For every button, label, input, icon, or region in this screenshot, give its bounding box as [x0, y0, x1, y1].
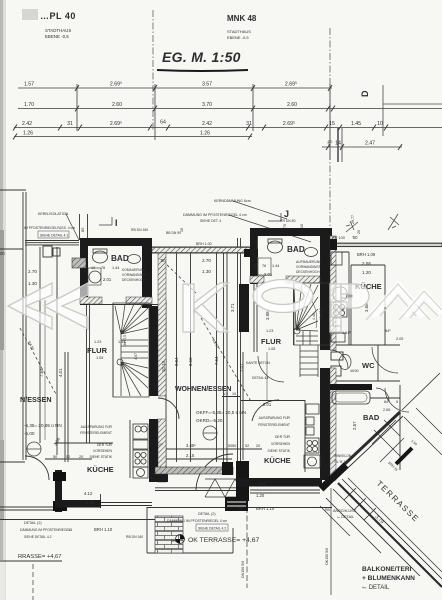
right kitchen stove — [305, 438, 319, 453]
left spiral stair boundary — [113, 303, 149, 397]
svg-text:IM PFOSTENRIEGELFASS. 4 cm: IM PFOSTENRIEGELFASS. 4 cm — [24, 226, 75, 230]
far right sink oval — [333, 287, 347, 301]
svg-text:20: 20 — [357, 230, 361, 234]
row4 labels — [23, 131, 375, 147]
svg-text:7.64: 7.64 — [214, 356, 219, 365]
svg-text:DÄMMUNG IM PFOSTENRIEGEL: DÄMMUNG IM PFOSTENRIEGEL — [20, 528, 71, 532]
svg-text:50: 50 — [232, 444, 236, 448]
left kitchen sink unit — [133, 424, 148, 439]
left unit living left line x166 — [165, 300, 167, 467]
svg-text:RB DN 160: RB DN 160 — [126, 535, 143, 539]
center insulation band — [155, 467, 233, 474]
svg-text:1.05: 1.05 — [96, 356, 103, 360]
axis marker D bracket — [382, 85, 384, 136]
far right band top lines — [332, 243, 442, 246]
far right wc divider — [377, 345, 379, 381]
property dashed vertical bottom left — [32, 564, 34, 600]
svg-text:12⁵: 12⁵ — [157, 443, 163, 447]
svg-text:1.30: 1.30 — [202, 269, 211, 274]
svg-text:BRH 1.09: BRH 1.09 — [357, 252, 376, 257]
survey arrow mark 2 — [388, 214, 399, 230]
svg-text:1.23: 1.23 — [94, 340, 101, 344]
center bottom dim line — [155, 448, 240, 450]
far-left window triple lines — [25, 240, 79, 242]
svg-text:40/30: 40/30 — [350, 369, 359, 373]
center truss zigzag — [205, 479, 248, 497]
svg-text:2.69⁵: 2.69⁵ — [283, 121, 295, 127]
right stair treads fan — [294, 284, 318, 331]
far right fridge — [331, 252, 342, 265]
svg-text:1.44: 1.44 — [272, 264, 279, 268]
svg-text:DER TÜR: DER TÜR — [275, 435, 291, 439]
svg-text:DECKENHOCH: DECKENHOCH — [122, 278, 146, 282]
svg-text:31: 31 — [246, 121, 252, 127]
svg-text:KANTE BETON: KANTE BETON — [246, 361, 270, 365]
left scan edge strip — [0, 0, 3, 600]
far right kitchen room lines — [350, 265, 352, 345]
ok terrasse box left line — [146, 507, 148, 553]
svg-text:52: 52 — [66, 455, 70, 459]
svg-text:4.46: 4.46 — [312, 313, 316, 320]
svg-text:10: 10 — [232, 392, 236, 396]
svg-text:+ BLUMENKANN: + BLUMENKANN — [362, 575, 415, 582]
right BAD left wall — [250, 228, 257, 284]
right kitchen header line — [241, 400, 305, 402]
svg-text:VORSEHEN: VORSEHEN — [271, 442, 291, 446]
left stair middle treads — [121, 340, 148, 358]
survey point symbol — [176, 535, 185, 544]
svg-text:ANSCHLUSS: ANSCHLUSS — [333, 509, 357, 513]
svg-text:FLUR: FLUR — [261, 337, 282, 346]
tick marks row3 — [13, 125, 388, 131]
far right door arc 1 — [372, 347, 398, 373]
diagonal wall A extension thin — [402, 373, 440, 410]
axis marker I elbow — [99, 224, 112, 226]
center black block a — [222, 462, 233, 475]
right flur dim row — [222, 396, 240, 398]
tick marks row2 — [75, 106, 335, 112]
svg-text:7.64: 7.64 — [39, 368, 44, 377]
svg-text:5: 5 — [396, 400, 398, 404]
svg-text:00: 00 — [0, 251, 5, 256]
svg-text:10: 10 — [180, 228, 184, 232]
far right band border lines — [332, 242, 442, 244]
right unit kitchen door arc — [252, 400, 279, 421]
left BAD right wall upper — [142, 246, 152, 308]
svg-text:1.70: 1.70 — [24, 102, 34, 108]
watermark letter P — [330, 284, 369, 332]
center black block b — [236, 461, 249, 501]
right stair winder arc — [298, 287, 317, 328]
svg-text:1.30: 1.30 — [28, 281, 37, 286]
svg-text:STADTHAUS: STADTHAUS — [227, 29, 251, 34]
svg-text:2.42: 2.42 — [22, 121, 32, 127]
right unit window lines bottom — [250, 489, 320, 491]
left stair top fan — [115, 304, 148, 334]
left BAD left wall — [80, 238, 88, 305]
far right boundary vertical — [399, 385, 401, 470]
svg-text:RB: RB — [325, 508, 330, 512]
svg-text:KÜCHE: KÜCHE — [87, 465, 114, 474]
far-left window head line — [0, 248, 23, 250]
tick marks row1 — [75, 85, 332, 91]
right BAD shower — [258, 258, 271, 275]
watermark logo chevrons — [8, 283, 88, 329]
svg-text:2.65: 2.65 — [383, 408, 390, 412]
right stair lower flight — [300, 345, 318, 377]
svg-text:DÄMMUNG IM PFOSTENRIEGEL 4 cm: DÄMMUNG IM PFOSTENRIEGEL 4 cm — [183, 213, 247, 217]
center black block c — [225, 497, 248, 511]
left kitchen bottom wall — [55, 500, 101, 508]
svg-text:2.69⁵: 2.69⁵ — [285, 82, 297, 88]
svg-text:50: 50 — [228, 444, 232, 448]
left stair center line — [120, 330, 122, 366]
svg-text:BRH 1.00: BRH 1.00 — [196, 242, 212, 246]
pipe line vertical bottom right — [330, 488, 332, 595]
svg-text:BAD: BAD — [287, 245, 305, 254]
svg-text:D: D — [360, 90, 370, 97]
svg-text:2.47: 2.47 — [365, 141, 375, 147]
svg-text:14: 14 — [335, 141, 341, 147]
terrace step rungs — [344, 488, 376, 520]
left BAD top wall — [80, 238, 152, 246]
far-left kitchen door arc — [25, 456, 49, 480]
svg-text:BRH 1.10: BRH 1.10 — [94, 527, 113, 532]
svg-text:16x17,5: 16x17,5 — [319, 308, 323, 320]
watermark letter A peaks — [366, 284, 442, 320]
svg-text:DETAIL 44: DETAIL 44 — [252, 376, 268, 380]
left unit kitchen divider line — [55, 442, 113, 444]
svg-text:2.01: 2.01 — [239, 363, 244, 372]
svg-text:DETAIL (2): DETAIL (2) — [24, 521, 42, 525]
left kitchen oven — [133, 467, 148, 478]
svg-text:8.16: 8.16 — [188, 357, 193, 366]
station connector x=77 — [76, 84, 78, 131]
far right appliance column border — [348, 252, 350, 345]
right kitchen small boxes — [306, 417, 314, 425]
left unit FLUR right line — [112, 303, 114, 397]
underline of title — [157, 70, 248, 71]
svg-text:RR DN 80: RR DN 80 — [280, 219, 296, 223]
svg-text:RR 100: RR 100 — [332, 236, 345, 240]
svg-text:OKRD=-5,20: OKRD=-5,20 — [196, 418, 223, 423]
left kitchen corner blocks — [53, 472, 66, 481]
svg-text:VORWANDINST.: VORWANDINST. — [296, 265, 321, 269]
far-left bottom double line — [0, 506, 65, 508]
svg-text:OK150 5/6: OK150 5/6 — [325, 548, 329, 565]
row2 labels — [24, 102, 297, 108]
far right bad line — [370, 397, 400, 399]
terrace step line 4 — [320, 506, 350, 536]
far-left bottom line y560 — [0, 560, 62, 562]
far-left outer wall double — [22, 192, 24, 460]
pipe line vertical bottom center — [246, 490, 248, 588]
left kitchen door dim line — [45, 458, 92, 460]
far-left wall jamb lines — [79, 214, 81, 240]
double line below row3 right — [337, 128, 339, 162]
dimension row 2 line — [18, 108, 442, 110]
terrace edge B thick — [338, 483, 442, 587]
center bottom long line — [147, 507, 247, 509]
svg-text:BAD: BAD — [363, 413, 380, 422]
aussparung text right kitchen — [258, 416, 291, 453]
living room vertical dim lines left unit — [176, 253, 178, 462]
watermark letter K — [183, 283, 228, 332]
drain dashed diagonal left unit — [163, 261, 196, 293]
diagonal house wall A double — [331, 412, 400, 477]
brick terrace strip — [155, 516, 183, 553]
svg-text:1.26: 1.26 — [200, 131, 210, 137]
svg-text:MNK 48: MNK 48 — [227, 14, 257, 23]
far right vanity block — [330, 384, 372, 390]
left unit inner wall lines x88 — [86, 305, 88, 443]
svg-text:20: 20 — [79, 455, 83, 459]
svg-text:WC: WC — [362, 361, 375, 370]
right top window black block — [330, 239, 337, 250]
far right door arc 2 — [385, 388, 409, 412]
svg-text:76: 76 — [101, 266, 105, 270]
ok terrasse box right line — [232, 528, 234, 553]
svg-text:1.61⁵: 1.61⁵ — [342, 331, 351, 335]
far-left furniture rect 2 — [53, 248, 60, 256]
dimension row 3 line — [14, 127, 442, 129]
right unit kitchen counter line — [304, 400, 306, 472]
smudge top-left — [22, 9, 38, 20]
survey arrow mark 1 — [346, 221, 358, 232]
left BAD sink — [128, 255, 141, 264]
svg-text:29,77: 29,77 — [351, 215, 355, 224]
svg-text:N/ESSEN: N/ESSEN — [20, 395, 52, 404]
svg-text:2.15: 2.15 — [186, 453, 195, 458]
svg-text:2.01: 2.01 — [263, 402, 272, 407]
station connector x=155 — [154, 84, 156, 140]
svg-text:85: 85 — [80, 227, 85, 232]
station connector x=253 — [252, 84, 254, 131]
svg-text:84⁵: 84⁵ — [385, 329, 391, 333]
far right wc room lines — [330, 344, 400, 346]
svg-text:KOMAUERUNG: KOMAUERUNG — [122, 268, 146, 272]
svg-text:10: 10 — [252, 264, 256, 268]
svg-text:BAD: BAD — [111, 254, 129, 263]
far-left header line — [0, 189, 26, 191]
svg-text:3.45⁵: 3.45⁵ — [186, 443, 196, 448]
right unit stair left line — [293, 283, 295, 345]
svg-text:2.70: 2.70 — [28, 269, 37, 274]
right stair left wall — [239, 284, 249, 332]
left stair newel — [117, 359, 123, 365]
far right small cabinet — [333, 318, 341, 326]
row3 labels — [22, 120, 383, 128]
center double wall left pair — [223, 252, 225, 462]
left living door arc — [158, 398, 179, 419]
center band lower line — [155, 490, 238, 492]
svg-text:70: 70 — [283, 224, 287, 228]
watermark letter O — [253, 280, 313, 313]
left BAD shower — [89, 271, 101, 283]
terrace tile lines pocket — [372, 420, 404, 462]
svg-text:AUFMAUERUNG: AUFMAUERUNG — [296, 260, 322, 264]
svg-text:1.20: 1.20 — [256, 493, 265, 498]
svg-text:2.60: 2.60 — [287, 102, 297, 108]
svg-text:10: 10 — [91, 266, 95, 270]
svg-text:2.60: 2.60 — [112, 102, 122, 108]
far-left door header line — [0, 461, 25, 463]
svg-text:'50: '50 — [352, 235, 358, 240]
svg-text:AUSSPARUNG FÜR: AUSSPARUNG FÜR — [81, 425, 113, 429]
right flur wall lines — [253, 284, 255, 352]
aussparung text left kitchen — [80, 425, 113, 459]
svg-text:50: 50 — [53, 455, 57, 459]
far-left room line x67 double — [64, 352, 66, 462]
center pier block — [244, 249, 258, 257]
svg-text:KERN-ISOLATION: KERN-ISOLATION — [38, 212, 68, 216]
left kitchen stove — [133, 450, 148, 467]
right unit outside line bottom — [237, 507, 332, 509]
svg-text:84⁵: 84⁵ — [384, 400, 390, 404]
svg-text:BALKONE/TERI: BALKONE/TERI — [362, 566, 412, 573]
svg-text:10: 10 — [300, 224, 304, 228]
dimension row 1 line — [18, 87, 332, 89]
right unit BAD left wall lines — [251, 236, 253, 284]
svg-text:1.20: 1.20 — [362, 270, 371, 275]
svg-text:DECKENHOCH: DECKENHOCH — [296, 270, 320, 274]
svg-text:15: 15 — [238, 507, 242, 511]
left unit BAD bottom wall line — [80, 304, 158, 306]
left window band hatch — [152, 248, 250, 253]
svg-text:2.70: 2.70 — [202, 258, 211, 263]
left unit kitchen window lines — [100, 502, 152, 504]
left unit kitchen counter line — [129, 420, 131, 478]
svg-text:4.07: 4.07 — [134, 353, 138, 360]
svg-text:52: 52 — [245, 444, 249, 448]
drain dashed diagonal center — [201, 318, 252, 403]
svg-text:FENSTERELEMENT: FENSTERELEMENT — [80, 431, 112, 435]
svg-text:SIEHE DETAIL 4.2: SIEHE DETAIL 4.2 — [198, 527, 226, 531]
svg-text:2.69⁵: 2.69⁵ — [110, 121, 122, 127]
far-left room line x40 — [39, 247, 41, 443]
terrace step line 2 — [326, 498, 381, 553]
center terrace door arc — [196, 454, 233, 491]
right stair newel — [294, 328, 300, 334]
svg-text:31: 31 — [67, 121, 73, 127]
svg-text:8.04: 8.04 — [174, 357, 179, 366]
svg-text:2.01: 2.01 — [264, 272, 273, 277]
left kitchen cabinet — [133, 440, 148, 449]
left kitchen window jamb — [100, 494, 102, 508]
right kitchen bottom wall — [237, 478, 322, 487]
svg-text:EG. M. 1:50: EG. M. 1:50 — [162, 49, 241, 65]
svg-text:I: I — [115, 218, 118, 228]
right unit flur door arc — [258, 356, 284, 382]
drain dashed diagonal far left — [20, 328, 57, 396]
svg-text:2.57: 2.57 — [352, 421, 357, 430]
far right wc boxes — [331, 366, 341, 376]
svg-text:…PL 40: …PL 40 — [40, 11, 76, 21]
svg-text:10.19: 10.19 — [161, 360, 166, 372]
svg-text:AUSSPARUNG FÜR: AUSSPARUNG FÜR — [259, 416, 291, 420]
svg-text:SIEHE STATIK: SIEHE STATIK — [90, 455, 113, 459]
far right appliance — [331, 333, 345, 342]
far right door arc 3 — [376, 388, 389, 401]
svg-text:SIEHE STATIK: SIEHE STATIK — [268, 449, 291, 453]
left stair wall — [149, 306, 158, 396]
right spiral stair boundary — [294, 283, 330, 345]
upper railing diagonals — [404, 408, 442, 455]
right outer wall hatch band — [330, 236, 336, 350]
svg-text:STADTHAUS: STADTHAUS — [45, 28, 71, 33]
svg-text:BRH 1.10: BRH 1.10 — [256, 506, 275, 511]
left unit bottom outside line — [0, 519, 162, 521]
left stair bottom fan — [121, 362, 148, 396]
svg-text:VORWANDINST.: VORWANDINST. — [122, 273, 147, 277]
svg-text:FENSTERELEMENT: FENSTERELEMENT — [258, 423, 290, 427]
right wc door arc — [330, 350, 348, 368]
svg-text:SIEHE DETAIL 4.2: SIEHE DETAIL 4.2 — [24, 535, 52, 539]
left BAD wc — [93, 251, 108, 263]
far right wc bowl — [339, 355, 351, 370]
right BAD bottom wall hatch — [250, 276, 264, 283]
right BAD sink — [305, 248, 318, 257]
left stair wall hatch band — [158, 253, 166, 396]
tick marks row4 — [13, 134, 402, 151]
far right bathtub — [332, 391, 370, 404]
far-left hatched block — [72, 258, 86, 268]
svg-text:1.44: 1.44 — [112, 266, 119, 270]
right BAD top wall — [250, 228, 332, 236]
right flur vertical dim line — [266, 352, 268, 400]
svg-text:1.23: 1.23 — [266, 329, 273, 333]
svg-text:OK TERRASSE= +4,67: OK TERRASSE= +4,67 — [188, 537, 259, 544]
svg-text:RRASSE= +4,67: RRASSE= +4,67 — [18, 554, 62, 560]
far right stove — [331, 302, 347, 317]
axis line x=330 dash-dot — [329, 28, 331, 232]
svg-text:KERNDÄMMUNG 6cm: KERNDÄMMUNG 6cm — [214, 199, 251, 203]
svg-text:DER TÜR: DER TÜR — [97, 443, 113, 447]
svg-text:2.01: 2.01 — [103, 277, 112, 282]
svg-text:DETAIL (2): DETAIL (2) — [198, 512, 216, 516]
right kitchen door dim line — [228, 448, 262, 450]
svg-text:'50: '50 — [160, 258, 166, 263]
svg-text:V.2: V.2 — [223, 392, 228, 396]
svg-text:76: 76 — [262, 264, 266, 268]
far-left room line x57 — [56, 247, 58, 455]
svg-text:SIEHE DETAIL 4.1: SIEHE DETAIL 4.1 — [40, 234, 68, 238]
svg-text:3.71: 3.71 — [230, 303, 235, 312]
svg-text:DN150 5/6: DN150 5/6 — [241, 561, 245, 578]
svg-text:1.20: 1.20 — [86, 500, 95, 505]
center double wall right pair — [237, 238, 239, 465]
svg-text:OKFF=-5,35= 20,5 ü NN: OKFF=-5,35= 20,5 ü NN — [196, 410, 246, 415]
svg-text:3.70: 3.70 — [202, 102, 212, 108]
svg-text:16x17,5: 16x17,5 — [123, 335, 127, 347]
svg-text:FLUR: FLUR — [87, 346, 108, 355]
svg-text:⌙ DETAIL: ⌙ DETAIL — [362, 585, 390, 591]
svg-text:2.42: 2.42 — [202, 121, 212, 127]
axis line x=153 dash-dot — [152, 10, 154, 131]
far right counter top line — [330, 251, 349, 253]
svg-text:20: 20 — [256, 444, 260, 448]
svg-text:VORSEHEN: VORSEHEN — [93, 449, 113, 453]
svg-text:1.05: 1.05 — [268, 347, 275, 351]
svg-text:DN: DN — [171, 539, 176, 543]
svg-text:RB DN 160: RB DN 160 — [131, 228, 148, 232]
dimension row 4 left line — [14, 136, 252, 138]
terrace step line 3 — [348, 478, 442, 572]
dimension row 4 right line — [322, 146, 402, 148]
svg-text:WINKELOB: WINKELOB — [334, 454, 351, 458]
svg-text:J: J — [284, 209, 289, 219]
svg-text:64: 64 — [160, 120, 166, 126]
